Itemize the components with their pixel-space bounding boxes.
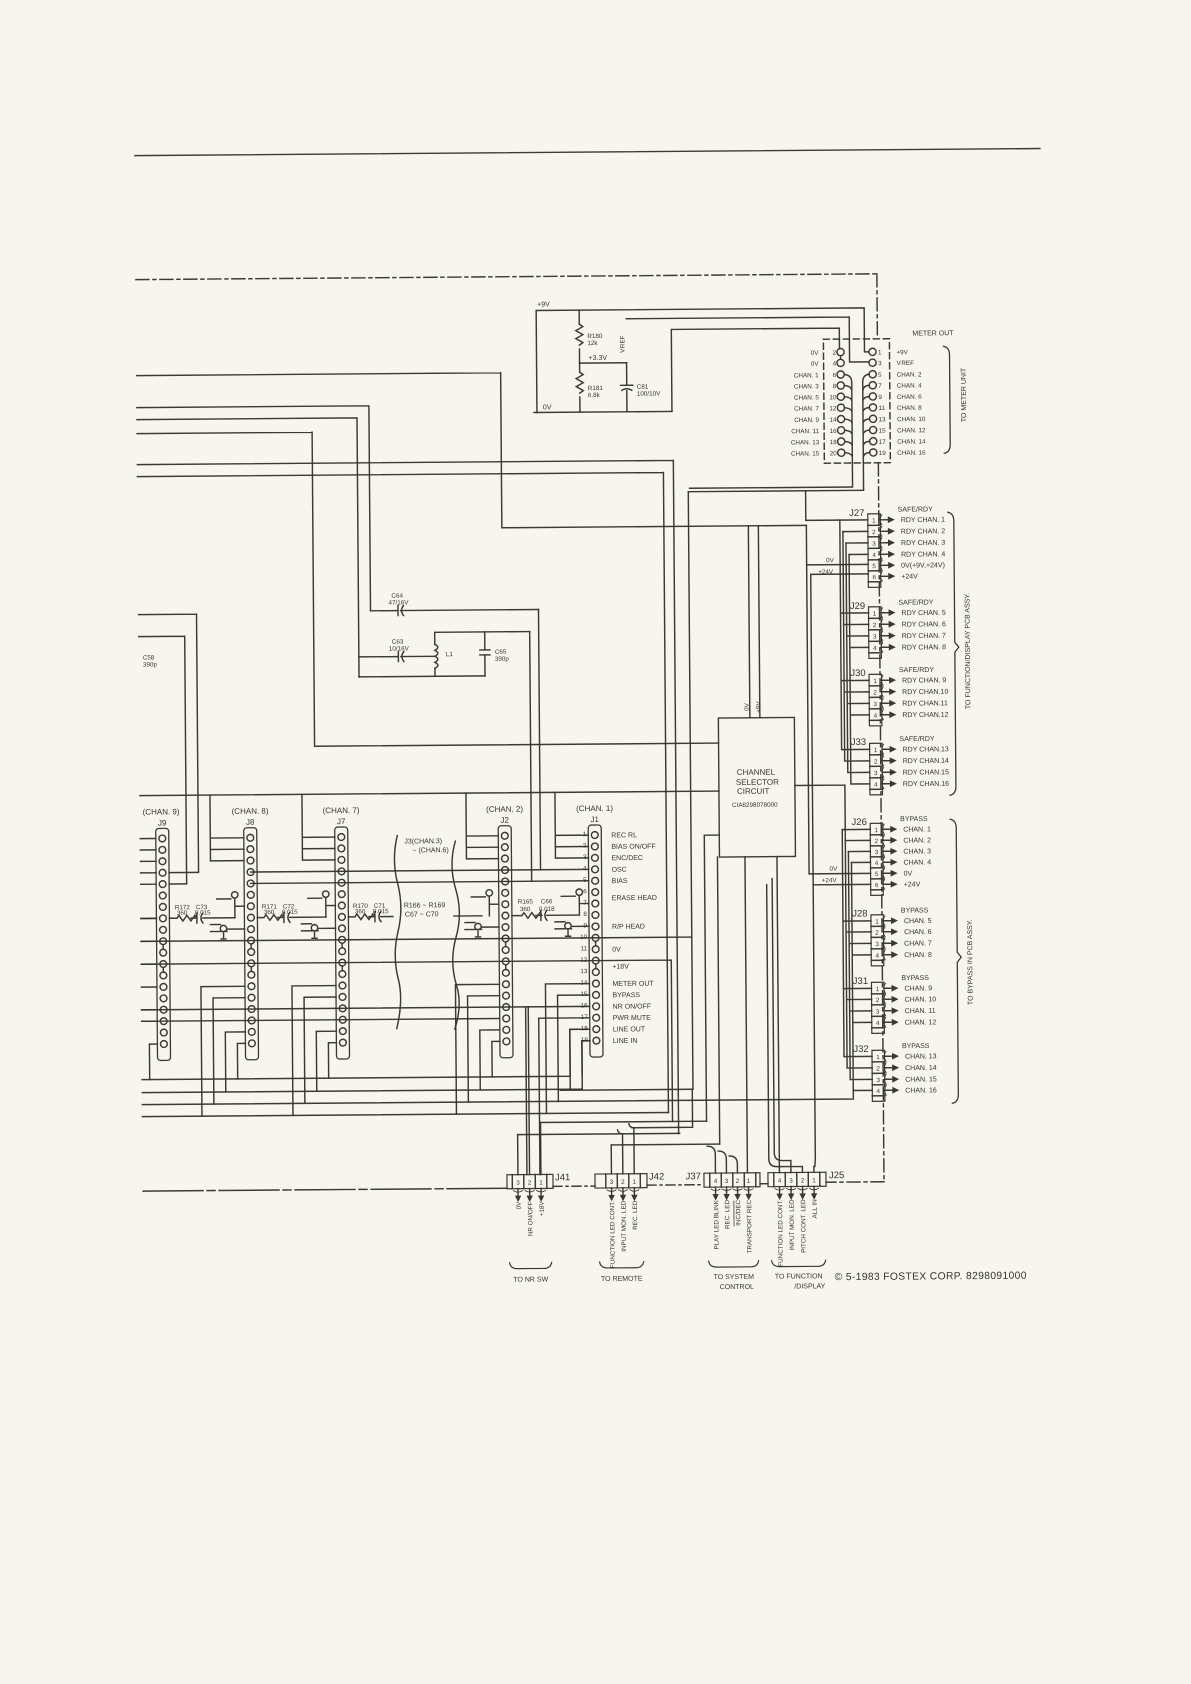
- wire: left edge line to C64 rail: [137, 406, 371, 613]
- svg-text:2: 2: [736, 1178, 740, 1185]
- J27 net labels: [901, 517, 946, 581]
- svg-text:CHAN. 8: CHAN. 8: [904, 952, 932, 959]
- wire: BIAS row across columns: [251, 881, 589, 884]
- svg-text:0V(+9V,+24V): 0V(+9V,+24V): [901, 562, 945, 569]
- svg-text:SAFE/RDY: SAFE/RDY: [899, 667, 934, 674]
- svg-text:1: 1: [873, 678, 877, 685]
- resistor R171 360 / capacitor C72 0.015: [257, 912, 326, 923]
- connector J7 (CHAN. 7) column: [323, 806, 362, 1059]
- svg-text:J9: J9: [158, 818, 167, 827]
- svg-text:RDY CHAN. 3: RDY CHAN. 3: [901, 540, 945, 547]
- wire: channel selector to J37 pin 1: [745, 857, 747, 1173]
- svg-text:BYPASS: BYPASS: [902, 1043, 930, 1050]
- svg-text:390p: 390p: [143, 661, 158, 668]
- meter pin 2-4 jumper: [840, 356, 842, 360]
- svg-text:CONTROL: CONTROL: [720, 1284, 754, 1291]
- wire: long crossing line to vertical B: [137, 460, 678, 1137]
- 0V / +24V labels at J26: [822, 866, 839, 885]
- svg-text:4: 4: [874, 713, 878, 720]
- svg-text:14: 14: [829, 417, 837, 424]
- svg-text:4: 4: [714, 1178, 718, 1185]
- J31 net labels: [904, 985, 936, 1026]
- svg-text:PWR MUTE: PWR MUTE: [613, 1015, 651, 1022]
- capacitor C65 390p: [480, 632, 490, 676]
- wire: J42 pin1 riser line: [632, 1089, 693, 1127]
- wires: feeds to J25 pins 3,2: [767, 878, 803, 1172]
- svg-text:R181: R181: [588, 385, 604, 392]
- svg-text:1: 1: [873, 611, 877, 618]
- svg-text:2: 2: [873, 622, 877, 629]
- svg-text:© 5-1983 FOSTEX CORP. 82980910: © 5-1983 FOSTEX CORP. 8298091000: [835, 1271, 1027, 1284]
- connector J2 (CHAN. 2) column: [486, 805, 525, 1058]
- svg-text:0V: 0V: [744, 702, 751, 711]
- svg-text:4: 4: [833, 361, 837, 368]
- 0V rail under R181/C81: [534, 411, 672, 412]
- svg-text:BYPASS: BYPASS: [901, 907, 929, 914]
- J26 net labels: [903, 826, 931, 888]
- meter pin numbers: [829, 349, 886, 457]
- +3.3V node: [580, 362, 627, 364]
- svg-text:CHAN. 6: CHAN. 6: [904, 929, 932, 936]
- svg-text:CHAN. 7: CHAN. 7: [794, 405, 819, 412]
- svg-text:J2: J2: [500, 816, 509, 825]
- wire: bottom bundle line 3: [142, 1112, 668, 1116]
- svg-text:0.015: 0.015: [195, 910, 211, 917]
- connector J8 (CHAN. 8) column: [232, 807, 271, 1060]
- svg-text:BYPASS: BYPASS: [900, 816, 928, 823]
- svg-text:360: 360: [177, 910, 188, 917]
- meter left pin hooks to down-bus: [844, 374, 852, 463]
- connector J27: [849, 508, 895, 588]
- svg-text:+18V: +18V: [612, 964, 629, 971]
- +9V rail: [536, 308, 869, 413]
- svg-text:CHAN. 8: CHAN. 8: [897, 405, 922, 412]
- svg-text:17: 17: [879, 439, 887, 446]
- svg-text:J29: J29: [850, 601, 865, 612]
- svg-text:1: 1: [539, 1179, 543, 1186]
- svg-text:ERASE HEAD: ERASE HEAD: [612, 895, 657, 902]
- svg-text:RDY CHAN.10: RDY CHAN.10: [902, 689, 948, 696]
- connector J32: [853, 1044, 899, 1102]
- svg-text:0V: 0V: [516, 1201, 523, 1210]
- svg-text:CHAN. 1: CHAN. 1: [903, 826, 931, 833]
- svg-text:BYPASS: BYPASS: [901, 975, 929, 982]
- svg-text:0.018: 0.018: [539, 906, 555, 913]
- svg-text:CHAN. 3: CHAN. 3: [903, 848, 931, 855]
- svg-text:1: 1: [876, 1054, 880, 1061]
- svg-text:CHAN. 10: CHAN. 10: [905, 996, 937, 1003]
- svg-text:J32: J32: [853, 1044, 868, 1055]
- wire: 0V row across sheet: [141, 937, 691, 941]
- svg-text:BIAS ON/OFF: BIAS ON/OFF: [611, 843, 655, 850]
- svg-text:RDY CHAN. 7: RDY CHAN. 7: [902, 633, 946, 640]
- svg-text:ALL IN: ALL IN: [812, 1199, 819, 1219]
- svg-text:9: 9: [878, 394, 882, 401]
- svg-text:1: 1: [747, 1178, 751, 1185]
- safe/rdy feed bus bundle: [840, 520, 870, 784]
- svg-text:CHAN. 4: CHAN. 4: [903, 859, 931, 866]
- svg-text:3: 3: [875, 941, 879, 948]
- svg-text:CHAN. 13: CHAN. 13: [791, 439, 820, 446]
- svg-text:47/16V: 47/16V: [388, 599, 409, 606]
- svg-text:1: 1: [633, 1179, 637, 1186]
- svg-text:3: 3: [725, 1178, 729, 1185]
- channel selector circuit block: [718, 717, 795, 857]
- brace TO SYSTEM CONTROL: [709, 1261, 759, 1267]
- svg-text:2: 2: [621, 1179, 625, 1186]
- svg-text:RDY CHAN. 2: RDY CHAN. 2: [901, 528, 945, 535]
- svg-text:4: 4: [873, 645, 877, 652]
- svg-text:V REF: V REF: [619, 335, 626, 353]
- svg-text:0.015: 0.015: [373, 908, 389, 915]
- wire: bottom bundle line 1: [142, 1029, 590, 1079]
- svg-text:10: 10: [829, 394, 837, 401]
- wire: OSC row across columns: [251, 869, 589, 872]
- wire: C64 output down to OSC row: [539, 609, 541, 869]
- resistor R181 6.8k: [576, 363, 583, 412]
- svg-text:1: 1: [872, 518, 876, 525]
- svg-text:J30: J30: [850, 668, 865, 679]
- svg-text:2: 2: [876, 997, 880, 1004]
- svg-text:+18V: +18V: [539, 1201, 546, 1217]
- svg-text:CHAN. 12: CHAN. 12: [905, 1019, 937, 1026]
- svg-text:19: 19: [879, 450, 887, 457]
- svg-text:3: 3: [789, 1177, 793, 1184]
- svg-text:TO NR SW: TO NR SW: [513, 1276, 548, 1283]
- svg-text:RDY CHAN. 5: RDY CHAN. 5: [902, 610, 946, 617]
- wire: LC tank top rail: [435, 632, 530, 645]
- svg-text:3: 3: [876, 1009, 880, 1016]
- svg-text:360: 360: [264, 909, 275, 916]
- wire: long crossing line to vertical A: [137, 472, 668, 1116]
- svg-text:RDY CHAN.15: RDY CHAN.15: [903, 769, 949, 776]
- svg-text:6: 6: [875, 882, 879, 889]
- svg-text:0V: 0V: [904, 871, 913, 878]
- svg-text:3: 3: [872, 541, 876, 548]
- svg-text:+9V: +9V: [896, 349, 908, 356]
- resistor R180 12k: [576, 310, 583, 363]
- svg-text:3: 3: [516, 1180, 520, 1187]
- connector J26: [851, 817, 897, 896]
- svg-text:16: 16: [830, 428, 838, 435]
- svg-text:J27: J27: [849, 508, 864, 519]
- svg-text:J31: J31: [853, 976, 868, 987]
- svg-text:CHAN. 16: CHAN. 16: [905, 1087, 937, 1094]
- wire: PWR MUTE row segments: [142, 1017, 707, 1178]
- svg-text:3: 3: [873, 634, 877, 641]
- connector J41: [507, 1172, 571, 1236]
- svg-text:13: 13: [878, 416, 886, 423]
- svg-text:3: 3: [610, 1179, 614, 1186]
- wire: +24V distribution vertical to J27/J26: [811, 574, 871, 885]
- svg-text:1: 1: [876, 986, 880, 993]
- svg-text:REC. LED: REC. LED: [724, 1200, 731, 1230]
- svg-text:2: 2: [832, 350, 836, 357]
- wire: channel feed line across column tops: [140, 791, 719, 796]
- svg-text:(CHAN. 7): (CHAN. 7): [323, 806, 360, 815]
- svg-text:BYPASS: BYPASS: [613, 992, 641, 999]
- svg-text:RDY CHAN. 1: RDY CHAN. 1: [901, 517, 945, 524]
- svg-text:SAFE/RDY: SAFE/RDY: [900, 736, 935, 743]
- svg-text:1: 1: [812, 1177, 816, 1184]
- wire: selector line to J42 pin 3: [611, 1143, 719, 1146]
- wire: long line from left edge bending down at x=504 to 0V distribution: [137, 370, 807, 530]
- svg-text:J25: J25: [829, 1170, 844, 1181]
- svg-text:REC RL: REC RL: [611, 832, 637, 839]
- wire: 0V distribution vertical to J27/J26: [806, 525, 870, 874]
- svg-text:FUNCTION LED CONT.: FUNCTION LED CONT.: [777, 1199, 785, 1266]
- svg-text:6: 6: [833, 372, 837, 379]
- svg-text:+3.3V: +3.3V: [589, 355, 608, 362]
- meter right pin hooks to down-bus: [863, 374, 870, 463]
- connector J29: [850, 601, 896, 659]
- brace TO FUNCTION /DISPLAY: [772, 1260, 826, 1266]
- svg-text:2: 2: [876, 1066, 880, 1073]
- svg-text:390p: 390p: [495, 656, 510, 663]
- wire: +9V feed vertical into channel selector: [758, 526, 760, 718]
- svg-text:(CHAN. 9): (CHAN. 9): [143, 807, 180, 816]
- svg-text:RDY CHAN.11: RDY CHAN.11: [902, 700, 948, 707]
- capacitor C63 10/16V: [359, 651, 435, 662]
- svg-text:CHAN. 12: CHAN. 12: [897, 427, 926, 434]
- svg-text:3: 3: [876, 1077, 880, 1084]
- svg-text:METER OUT: METER OUT: [912, 330, 954, 337]
- capacitor C81 100/10V: [621, 363, 633, 412]
- svg-text:4: 4: [875, 953, 879, 960]
- svg-text:4: 4: [778, 1178, 782, 1185]
- svg-text:RDY CHAN. 4: RDY CHAN. 4: [901, 551, 945, 558]
- wire: extra selector exit to bottom bundle: [717, 857, 719, 1144]
- svg-text:+9V: +9V: [537, 301, 550, 308]
- J9 stubs from sheet edge: [140, 838, 157, 1021]
- svg-text:CHAN. 10: CHAN. 10: [897, 416, 926, 423]
- wires into J27 pins 1-4: [806, 490, 869, 555]
- svg-text:CHAN. 7: CHAN. 7: [904, 940, 932, 947]
- svg-text:2: 2: [873, 690, 877, 697]
- svg-text:CHAN. 15: CHAN. 15: [791, 450, 820, 457]
- column bottom L-wires pins 14,15,18,19: [201, 984, 591, 1117]
- svg-text:2: 2: [875, 838, 879, 845]
- svg-text:TO METER UNIT: TO METER UNIT: [961, 367, 968, 422]
- connector J9 (CHAN. 9) column: [143, 807, 182, 1060]
- svg-text:SAFE/RDY: SAFE/RDY: [898, 599, 933, 606]
- svg-text:18: 18: [830, 439, 838, 446]
- svg-text:J26: J26: [851, 817, 866, 828]
- svg-text:10/16V: 10/16V: [389, 645, 410, 652]
- svg-text:CHAN. 4: CHAN. 4: [897, 382, 922, 389]
- svg-text:C67 ~ C70: C67 ~ C70: [405, 911, 439, 918]
- svg-text:7: 7: [878, 383, 882, 390]
- wire: bottom bundle line 2: [142, 1041, 590, 1093]
- svg-text:6: 6: [872, 574, 876, 581]
- J32 net labels: [905, 1053, 937, 1094]
- meter right net labels: [896, 349, 926, 457]
- svg-text:6: 6: [583, 888, 587, 895]
- wire: meter right bus down to channel selector 0V: [748, 526, 750, 718]
- meter pins left column circles 2,4,6,8,10,12,14,16,18,20: [837, 348, 845, 456]
- svg-text:CHAN. 5: CHAN. 5: [904, 918, 932, 925]
- svg-text:INC/DEC: INC/DEC: [735, 1199, 742, 1225]
- svg-text:L1: L1: [446, 651, 454, 658]
- svg-text:R180: R180: [587, 333, 603, 340]
- svg-text:ENC/DEC: ENC/DEC: [611, 855, 643, 862]
- svg-text:0V: 0V: [612, 947, 621, 954]
- svg-text:J37: J37: [686, 1171, 701, 1182]
- svg-text:LINE IN: LINE IN: [613, 1038, 638, 1045]
- svg-text:2: 2: [874, 759, 878, 766]
- svg-text:0V: 0V: [830, 866, 839, 873]
- svg-text:CHAN. 14: CHAN. 14: [897, 438, 926, 445]
- brace TO BYPASS IN PCB ASSY: [950, 819, 962, 1103]
- connector J33: [851, 737, 897, 795]
- wire: channel selector output to safe/rdy bus: [795, 785, 845, 841]
- sheet top border line: [135, 149, 1040, 156]
- svg-text:CHAN. 16: CHAN. 16: [897, 450, 926, 457]
- brace TO REMOTE: [600, 1262, 644, 1268]
- connector J30: [850, 668, 896, 726]
- svg-text:8: 8: [833, 383, 837, 390]
- svg-text:CHAN. 1: CHAN. 1: [794, 372, 819, 379]
- svg-text:J7: J7: [337, 817, 346, 826]
- connector J31: [853, 976, 899, 1034]
- J28 net labels: [904, 918, 932, 959]
- svg-text:J33: J33: [851, 737, 866, 748]
- svg-text:1: 1: [874, 827, 878, 834]
- svg-text:CHANNEL: CHANNEL: [737, 768, 776, 777]
- svg-text:J41: J41: [555, 1172, 570, 1183]
- svg-text:INPUT MON. LED: INPUT MON. LED: [621, 1200, 628, 1251]
- svg-text:1: 1: [875, 919, 879, 926]
- svg-text:J3(CHAN.3): J3(CHAN.3): [404, 838, 442, 845]
- svg-text:+24V: +24V: [904, 881, 921, 888]
- svg-text:(CHAN. 8): (CHAN. 8): [232, 807, 269, 816]
- svg-text:RDY CHAN. 8: RDY CHAN. 8: [902, 644, 946, 651]
- svg-text:CHAN. 11: CHAN. 11: [905, 1008, 936, 1015]
- J1 pin numbers 1-19: [579, 831, 588, 1044]
- svg-text:6.8k: 6.8k: [588, 392, 601, 399]
- svg-text:CHAN. 14: CHAN. 14: [905, 1065, 937, 1072]
- svg-text:0V: 0V: [811, 350, 820, 357]
- wire: CHAN.16 long line from left: [142, 1091, 853, 1105]
- wire: +18V row across sheet: [141, 960, 672, 1126]
- bypass feed bus bundle: [842, 829, 872, 1090]
- svg-text:+24V: +24V: [901, 573, 918, 580]
- wire: left edge corner down at x=186 long vertical: [139, 636, 187, 884]
- wire: LC tank bottom rail: [359, 668, 485, 677]
- svg-text:LINE OUT: LINE OUT: [613, 1026, 646, 1033]
- solid/dash feed line from left edge to J41: [143, 1188, 507, 1191]
- svg-text:METER OUT: METER OUT: [612, 981, 654, 988]
- wire: left edge corner down at x=198 to feed line: [139, 614, 199, 873]
- svg-text:INPUT MON. LED: INPUT MON. LED: [789, 1199, 796, 1250]
- svg-text:13: 13: [580, 968, 588, 975]
- svg-text:+24V: +24V: [818, 569, 834, 576]
- svg-text:8: 8: [583, 911, 587, 918]
- svg-text:12: 12: [829, 405, 837, 412]
- wire: meter left bus down to vertical C: [688, 463, 868, 1089]
- squiggle break J3(CHAN.3)~(CHAN.6): [394, 835, 460, 1030]
- svg-text:R165: R165: [518, 899, 534, 906]
- svg-text:RDY CHAN.14: RDY CHAN.14: [903, 758, 949, 765]
- dash-dot frame: top horizontal and right vertical down to bottom connector row: [136, 274, 884, 1188]
- svg-text:2: 2: [872, 529, 876, 536]
- svg-text:20: 20: [830, 450, 838, 457]
- meter left net labels: [790, 350, 820, 458]
- svg-text:TO BYPASS IN PCB ASSY.: TO BYPASS IN PCB ASSY.: [967, 919, 975, 1005]
- svg-text:TO FUNCTION: TO FUNCTION: [775, 1273, 823, 1280]
- svg-text:RDY CHAN.13: RDY CHAN.13: [903, 746, 949, 753]
- svg-text:1: 1: [878, 349, 882, 356]
- svg-text:3: 3: [873, 701, 877, 708]
- svg-text:FUNCTION LED CONT.: FUNCTION LED CONT.: [609, 1201, 617, 1268]
- svg-text:RDY CHAN.16: RDY CHAN.16: [903, 781, 949, 788]
- svg-text:J28: J28: [852, 908, 867, 919]
- connector J25: [768, 1170, 845, 1267]
- Vref wire to meter pin 3: [626, 317, 868, 364]
- stub into squiggle for R166-R169 group: [141, 916, 482, 919]
- svg-text:SELECTOR: SELECTOR: [736, 778, 779, 787]
- svg-text:360: 360: [355, 908, 366, 915]
- svg-text:RDY CHAN. 9: RDY CHAN. 9: [902, 677, 946, 684]
- resistor R165 360 / capacitor C66 0.018: [512, 910, 579, 921]
- svg-text:0V: 0V: [811, 361, 820, 368]
- svg-text:/DISPLAY: /DISPLAY: [794, 1283, 825, 1290]
- svg-text:~ (CHAN.6): ~ (CHAN.6): [412, 847, 448, 854]
- wire: selector line to J42/J41 row: [517, 1089, 692, 1134]
- J33 net labels: [903, 746, 950, 788]
- svg-text:5: 5: [875, 871, 879, 878]
- svg-text:(CHAN. 1): (CHAN. 1): [576, 804, 613, 813]
- svg-text:360: 360: [520, 906, 531, 913]
- 0V / +24V labels at J27: [818, 557, 835, 576]
- svg-text:11: 11: [581, 945, 588, 952]
- svg-text:CHAN. 9: CHAN. 9: [794, 417, 819, 424]
- J29 net labels: [902, 610, 947, 652]
- svg-text:5: 5: [878, 372, 882, 379]
- resistor R172 360 / capacitor C73 0.015: [169, 913, 235, 924]
- svg-text:100/10V: 100/10V: [637, 391, 661, 398]
- svg-text:BIAS: BIAS: [612, 878, 628, 885]
- svg-text:CHAN. 15: CHAN. 15: [905, 1076, 937, 1083]
- svg-text:CHAN. 2: CHAN. 2: [903, 837, 931, 844]
- svg-text:NR ON/OFF: NR ON/OFF: [527, 1201, 534, 1236]
- svg-text:0.015: 0.015: [282, 909, 298, 916]
- svg-text:J8: J8: [246, 818, 255, 827]
- svg-text:0V: 0V: [543, 404, 552, 411]
- J42 pin risers: [611, 1124, 634, 1174]
- label R166~R169 C67~C70: [404, 902, 446, 918]
- wire: C65 top rail down to BIAS row: [530, 632, 532, 882]
- svg-text:R166 ~ R169: R166 ~ R169: [404, 902, 446, 909]
- svg-text:4: 4: [876, 1020, 880, 1027]
- meter connector dashed outline: [823, 339, 890, 464]
- connector J1 (CHAN. 1) column: [576, 804, 615, 1057]
- brace TO FUNCTION/DISPLAY PCB ASSY: [948, 512, 960, 795]
- svg-text:3: 3: [874, 770, 878, 777]
- svg-text:+9V: +9V: [755, 701, 762, 713]
- wires into J26 pins 1-4: [842, 829, 870, 862]
- svg-text:4: 4: [875, 860, 879, 867]
- svg-text:REC. LED: REC. LED: [632, 1200, 639, 1230]
- svg-text:CIRCUIT: CIRCUIT: [737, 787, 770, 796]
- svg-text:CHAN. 13: CHAN. 13: [905, 1053, 937, 1060]
- J9 bottom riser: [149, 1044, 157, 1079]
- resistor R170 360 / capacitor C71 0.015: [348, 912, 393, 922]
- connector J42: [595, 1172, 665, 1269]
- svg-text:TO REMOTE: TO REMOTE: [601, 1276, 643, 1283]
- svg-text:CHAN. 5: CHAN. 5: [794, 394, 819, 401]
- svg-text:5: 5: [872, 563, 876, 570]
